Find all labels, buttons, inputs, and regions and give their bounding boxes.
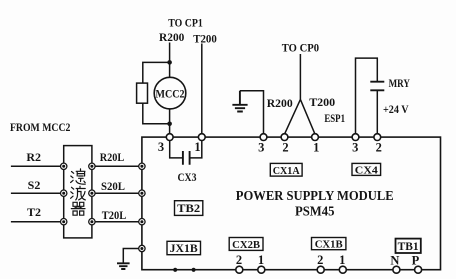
svg-text:+24 V: +24 V (383, 102, 409, 116)
svg-text:S20L: S20L (101, 179, 125, 193)
svg-text:POWER SUPPLY MODULE: POWER SUPPLY MODULE (236, 189, 394, 204)
svg-text:TB1: TB1 (398, 241, 419, 253)
svg-text:MCC2: MCC2 (156, 87, 185, 101)
svg-text:S2: S2 (28, 178, 41, 192)
svg-text:TO CP0: TO CP0 (282, 40, 319, 54)
svg-text:1: 1 (258, 253, 264, 267)
svg-text:T20L: T20L (102, 208, 127, 222)
svg-text:T200: T200 (309, 95, 335, 109)
svg-text:MRY: MRY (389, 76, 411, 90)
svg-text:TB2: TB2 (177, 203, 200, 215)
svg-text:R200: R200 (159, 30, 184, 44)
svg-text:JX1B: JX1B (170, 243, 198, 255)
svg-text:CX3: CX3 (178, 170, 197, 184)
svg-text:R200: R200 (267, 96, 293, 110)
svg-text:TO CP1: TO CP1 (168, 16, 203, 30)
svg-text:2: 2 (236, 253, 242, 267)
svg-text:T2: T2 (27, 205, 41, 219)
svg-text:2: 2 (376, 140, 382, 154)
svg-text:FROM MCC2: FROM MCC2 (10, 120, 71, 134)
svg-text:N: N (390, 253, 399, 267)
svg-text:P: P (412, 253, 420, 267)
svg-text:ESP1: ESP1 (324, 111, 345, 125)
svg-text:1: 1 (313, 140, 319, 154)
svg-text:2: 2 (282, 140, 288, 154)
svg-text:3: 3 (352, 140, 358, 154)
svg-text:R2: R2 (26, 150, 41, 164)
svg-text:CX1A: CX1A (273, 165, 300, 177)
svg-text:1: 1 (194, 140, 200, 154)
svg-text:1: 1 (339, 253, 345, 267)
svg-text:CX4: CX4 (355, 164, 379, 176)
svg-text:3: 3 (258, 140, 264, 154)
svg-text:PSM45: PSM45 (295, 204, 335, 219)
svg-text:2: 2 (317, 253, 323, 267)
svg-text:R20L: R20L (100, 150, 125, 164)
svg-text:CX2B: CX2B (232, 239, 261, 251)
svg-text:T200: T200 (193, 31, 217, 45)
svg-text:3: 3 (158, 140, 164, 154)
svg-text:CX1B: CX1B (315, 239, 344, 251)
